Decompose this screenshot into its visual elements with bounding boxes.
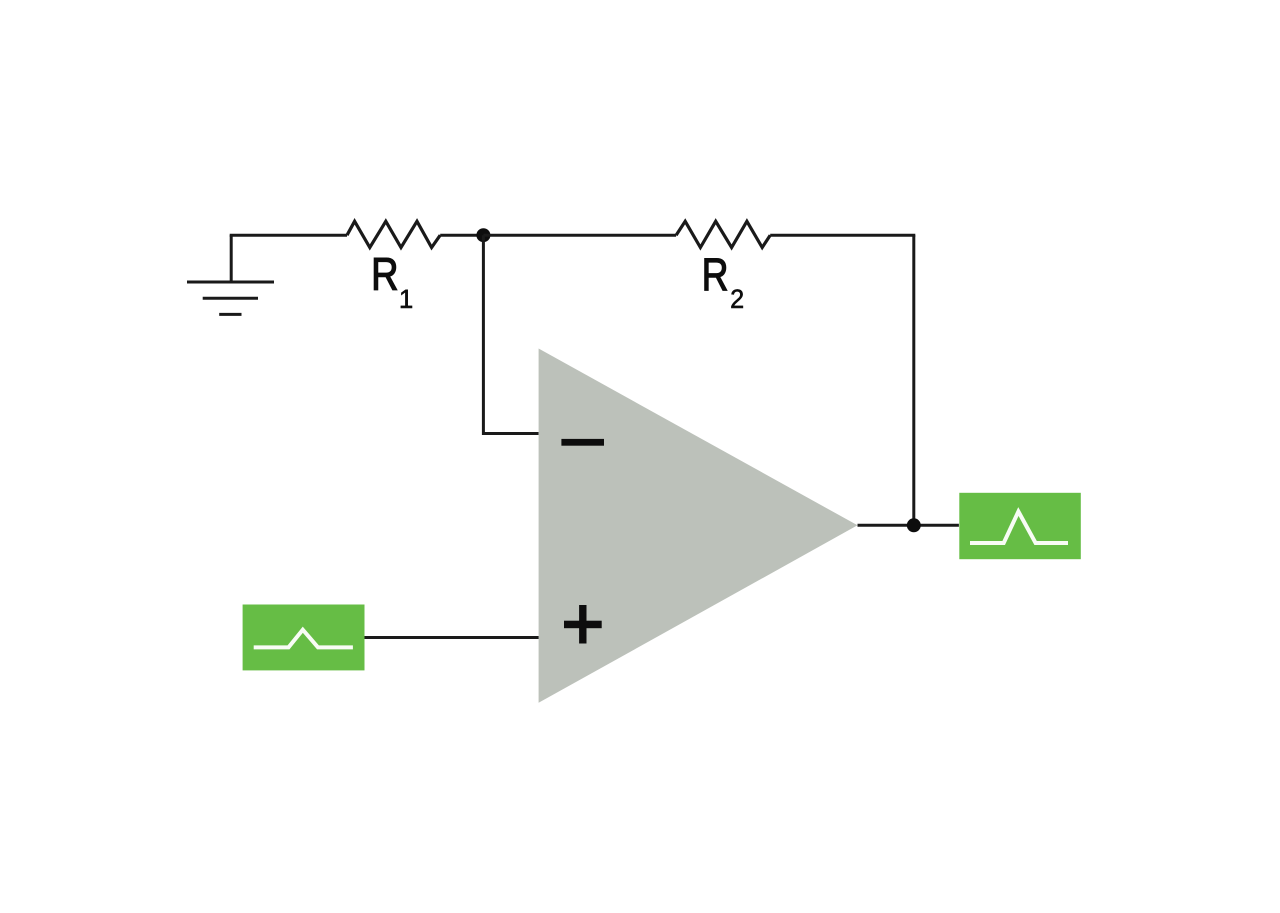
input source box — [243, 605, 365, 671]
output scope box — [959, 493, 1081, 559]
label R1 — [374, 258, 412, 308]
wire node A to R2 — [483, 234, 676, 237]
op-amp U1 minus marker — [561, 439, 604, 446]
wire source to non-inverting input — [365, 636, 539, 639]
node A junction dot — [476, 228, 490, 242]
resistor R1 — [347, 221, 440, 247]
wire corner down to node B — [912, 235, 915, 525]
wire R2 to corner — [770, 234, 915, 237]
label R2 — [705, 259, 743, 308]
wire ground to R1 — [230, 234, 347, 237]
op-amp U1 plus marker — [564, 605, 602, 644]
output scope waveform — [970, 512, 1068, 544]
wire op-amp output to scope — [858, 524, 959, 527]
wire node A down to inverting input — [483, 235, 538, 433]
input source waveform — [254, 630, 353, 648]
resistor R2 — [676, 221, 770, 247]
node B junction dot — [907, 518, 921, 532]
op-amp U1 — [539, 349, 858, 703]
wire R1 to node A — [440, 234, 483, 237]
ground — [187, 235, 274, 314]
